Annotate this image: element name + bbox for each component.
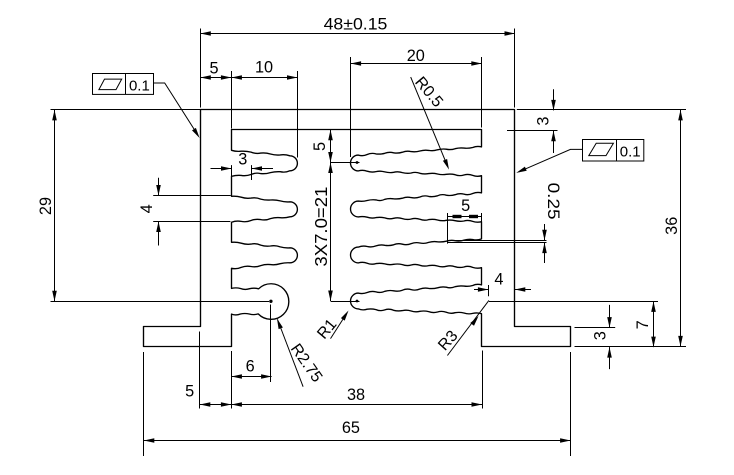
flatness feature control frame right xyxy=(583,140,644,162)
leader R0.5 xyxy=(411,77,447,165)
dimension lines xyxy=(453,215,462,218)
svg-text:0.1: 0.1 xyxy=(620,143,641,160)
svg-text:0.25: 0.25 xyxy=(544,183,562,220)
svg-text:48±0.15: 48±0.15 xyxy=(324,15,388,33)
leader R2.75 xyxy=(278,320,304,387)
svg-text:5: 5 xyxy=(209,59,218,77)
svg-text:36: 36 xyxy=(663,217,681,235)
svg-text:0.1: 0.1 xyxy=(129,77,150,94)
svg-text:38: 38 xyxy=(347,386,365,404)
svg-text:5: 5 xyxy=(461,197,470,215)
svg-text:5: 5 xyxy=(185,383,194,401)
svg-text:3: 3 xyxy=(238,151,247,169)
svg-text:4: 4 xyxy=(494,271,503,289)
leader R1 xyxy=(331,315,347,339)
svg-text:10: 10 xyxy=(255,59,273,77)
svg-text:3: 3 xyxy=(592,331,610,340)
svg-text:7: 7 xyxy=(634,320,652,329)
heatsink profile outline xyxy=(144,110,571,347)
svg-text:3X7.0=21: 3X7.0=21 xyxy=(311,187,331,267)
dimension arrowheads xyxy=(200,31,211,36)
svg-text:3: 3 xyxy=(535,117,553,126)
svg-text:4: 4 xyxy=(138,204,156,213)
extension lines xyxy=(51,29,687,457)
svg-text:5: 5 xyxy=(311,142,329,151)
svg-text:29: 29 xyxy=(37,197,55,215)
flatness feature control frame left xyxy=(93,74,154,95)
svg-text:6: 6 xyxy=(246,358,255,376)
svg-text:65: 65 xyxy=(342,419,360,437)
center dots xyxy=(269,300,272,303)
svg-text:20: 20 xyxy=(407,47,425,65)
leader R3 xyxy=(447,300,489,355)
